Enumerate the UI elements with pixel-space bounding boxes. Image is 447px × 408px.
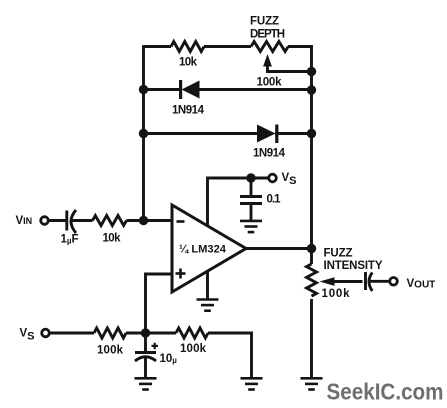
wire: VIN input row <box>49 219 66 222</box>
potentiometer R6 wiper arrow (left) <box>320 277 337 286</box>
resistor R5 100k bottom middle <box>176 328 208 338</box>
terminal VS bottom <box>42 329 50 337</box>
wire: bottom right drop to ground <box>250 332 253 378</box>
wire: right feedback vertical <box>310 45 313 264</box>
svg-text:VS: VS <box>20 328 35 343</box>
svg-text:VS: VS <box>282 172 297 187</box>
svg-text:10µ: 10µ <box>160 353 178 365</box>
svg-text:100k: 100k <box>322 288 351 300</box>
svg-text:FUZZ: FUZZ <box>324 248 353 260</box>
wire: C4 to VOUT terminal <box>369 280 390 283</box>
wire: op-amp + input to bottom rail <box>146 274 173 333</box>
wire: FUZZ INTENSITY wiper shaft <box>332 280 363 283</box>
capacitor C1 1uF plates <box>65 211 68 231</box>
op-amp U1 quarter LM324 triangle <box>172 205 246 292</box>
junction node: bottom rail / 10uF <box>141 328 150 337</box>
wire: op-amp ground pin <box>206 271 209 299</box>
resistor R1 10k feedback <box>171 42 204 52</box>
svg-text:1N914: 1N914 <box>172 105 205 117</box>
svg-text:FUZZ: FUZZ <box>250 16 279 28</box>
junction node: left rail / input <box>139 216 148 225</box>
wire: diode D1 row <box>144 88 182 91</box>
svg-text:10k: 10k <box>179 57 198 69</box>
svg-text:DEPTH: DEPTH <box>250 29 285 41</box>
junction node: right rail / diode D2 <box>307 129 316 138</box>
svg-text:¼ LM324: ¼ LM324 <box>179 244 227 256</box>
potentiometer R2 100k FUZZ DEPTH element <box>251 42 288 52</box>
potentiometer R2 wiper arrow (up) <box>263 54 272 67</box>
ground (0.1 cap) <box>240 221 262 232</box>
wire: diode D2 row <box>144 132 259 135</box>
wire: op-amp V+ pin to VS node <box>208 178 269 226</box>
ground (op-amp pin) <box>197 300 219 311</box>
junction node: right rail / diode D1 <box>307 85 316 94</box>
wire: 10uF cap leads <box>144 333 147 353</box>
potentiometer R6 100k FUZZ INTENSITY element <box>307 264 317 296</box>
capacitor C2 0.1 plates <box>240 195 262 198</box>
svg-text:1N914: 1N914 <box>253 148 286 160</box>
resistor R4 100k bottom left <box>94 328 126 338</box>
capacitor C4 output coupling <box>364 272 367 290</box>
wire: 0.1 cap leads <box>250 178 253 197</box>
svg-text:INTENSITY: INTENSITY <box>324 260 383 272</box>
ground (FUZZ INTENSITY pot) <box>301 378 323 389</box>
junction node: left rail / diode D1 <box>139 85 148 94</box>
polarity + for C3 <box>152 343 159 350</box>
wire: VS bottom row <box>51 332 95 335</box>
ground (10uF cap) <box>135 378 157 389</box>
junction node: right rail / wiper <box>307 67 316 76</box>
terminal VIN <box>41 217 49 225</box>
svg-text:VOUT: VOUT <box>407 278 436 291</box>
capacitor C3 10uF plates <box>135 351 156 354</box>
wire: FUZZ DEPTH wiper to right rail <box>266 70 311 73</box>
svg-text:SeekIC.com: SeekIC.com <box>327 379 444 405</box>
terminal VOUT <box>390 278 398 286</box>
diode D1 1N914 (points left) <box>179 80 200 99</box>
svg-text:10k: 10k <box>103 233 122 245</box>
svg-text:0.1: 0.1 <box>267 194 282 206</box>
wire: top feedback horizontal <box>142 45 171 48</box>
wire: op-amp output to right rail <box>245 247 312 250</box>
junction node: VS / 0.1 cap <box>246 173 255 182</box>
junction node: right rail / op-amp output <box>307 244 316 253</box>
terminal VS top <box>269 174 277 182</box>
ground (bottom right drop) <box>241 378 263 389</box>
resistor R3 10k input <box>93 216 127 226</box>
wire: pot bottom to ground <box>310 299 313 378</box>
svg-text:100k: 100k <box>257 77 283 89</box>
svg-text:100k: 100k <box>180 343 207 355</box>
wire: left feedback vertical <box>142 47 145 221</box>
diode D2 1N914 (points right) <box>257 125 278 144</box>
svg-text:VIN: VIN <box>16 215 33 227</box>
svg-text:100k: 100k <box>97 345 124 357</box>
junction node: left rail / diode D2 <box>139 129 148 138</box>
svg-text:1µF: 1µF <box>61 233 79 245</box>
